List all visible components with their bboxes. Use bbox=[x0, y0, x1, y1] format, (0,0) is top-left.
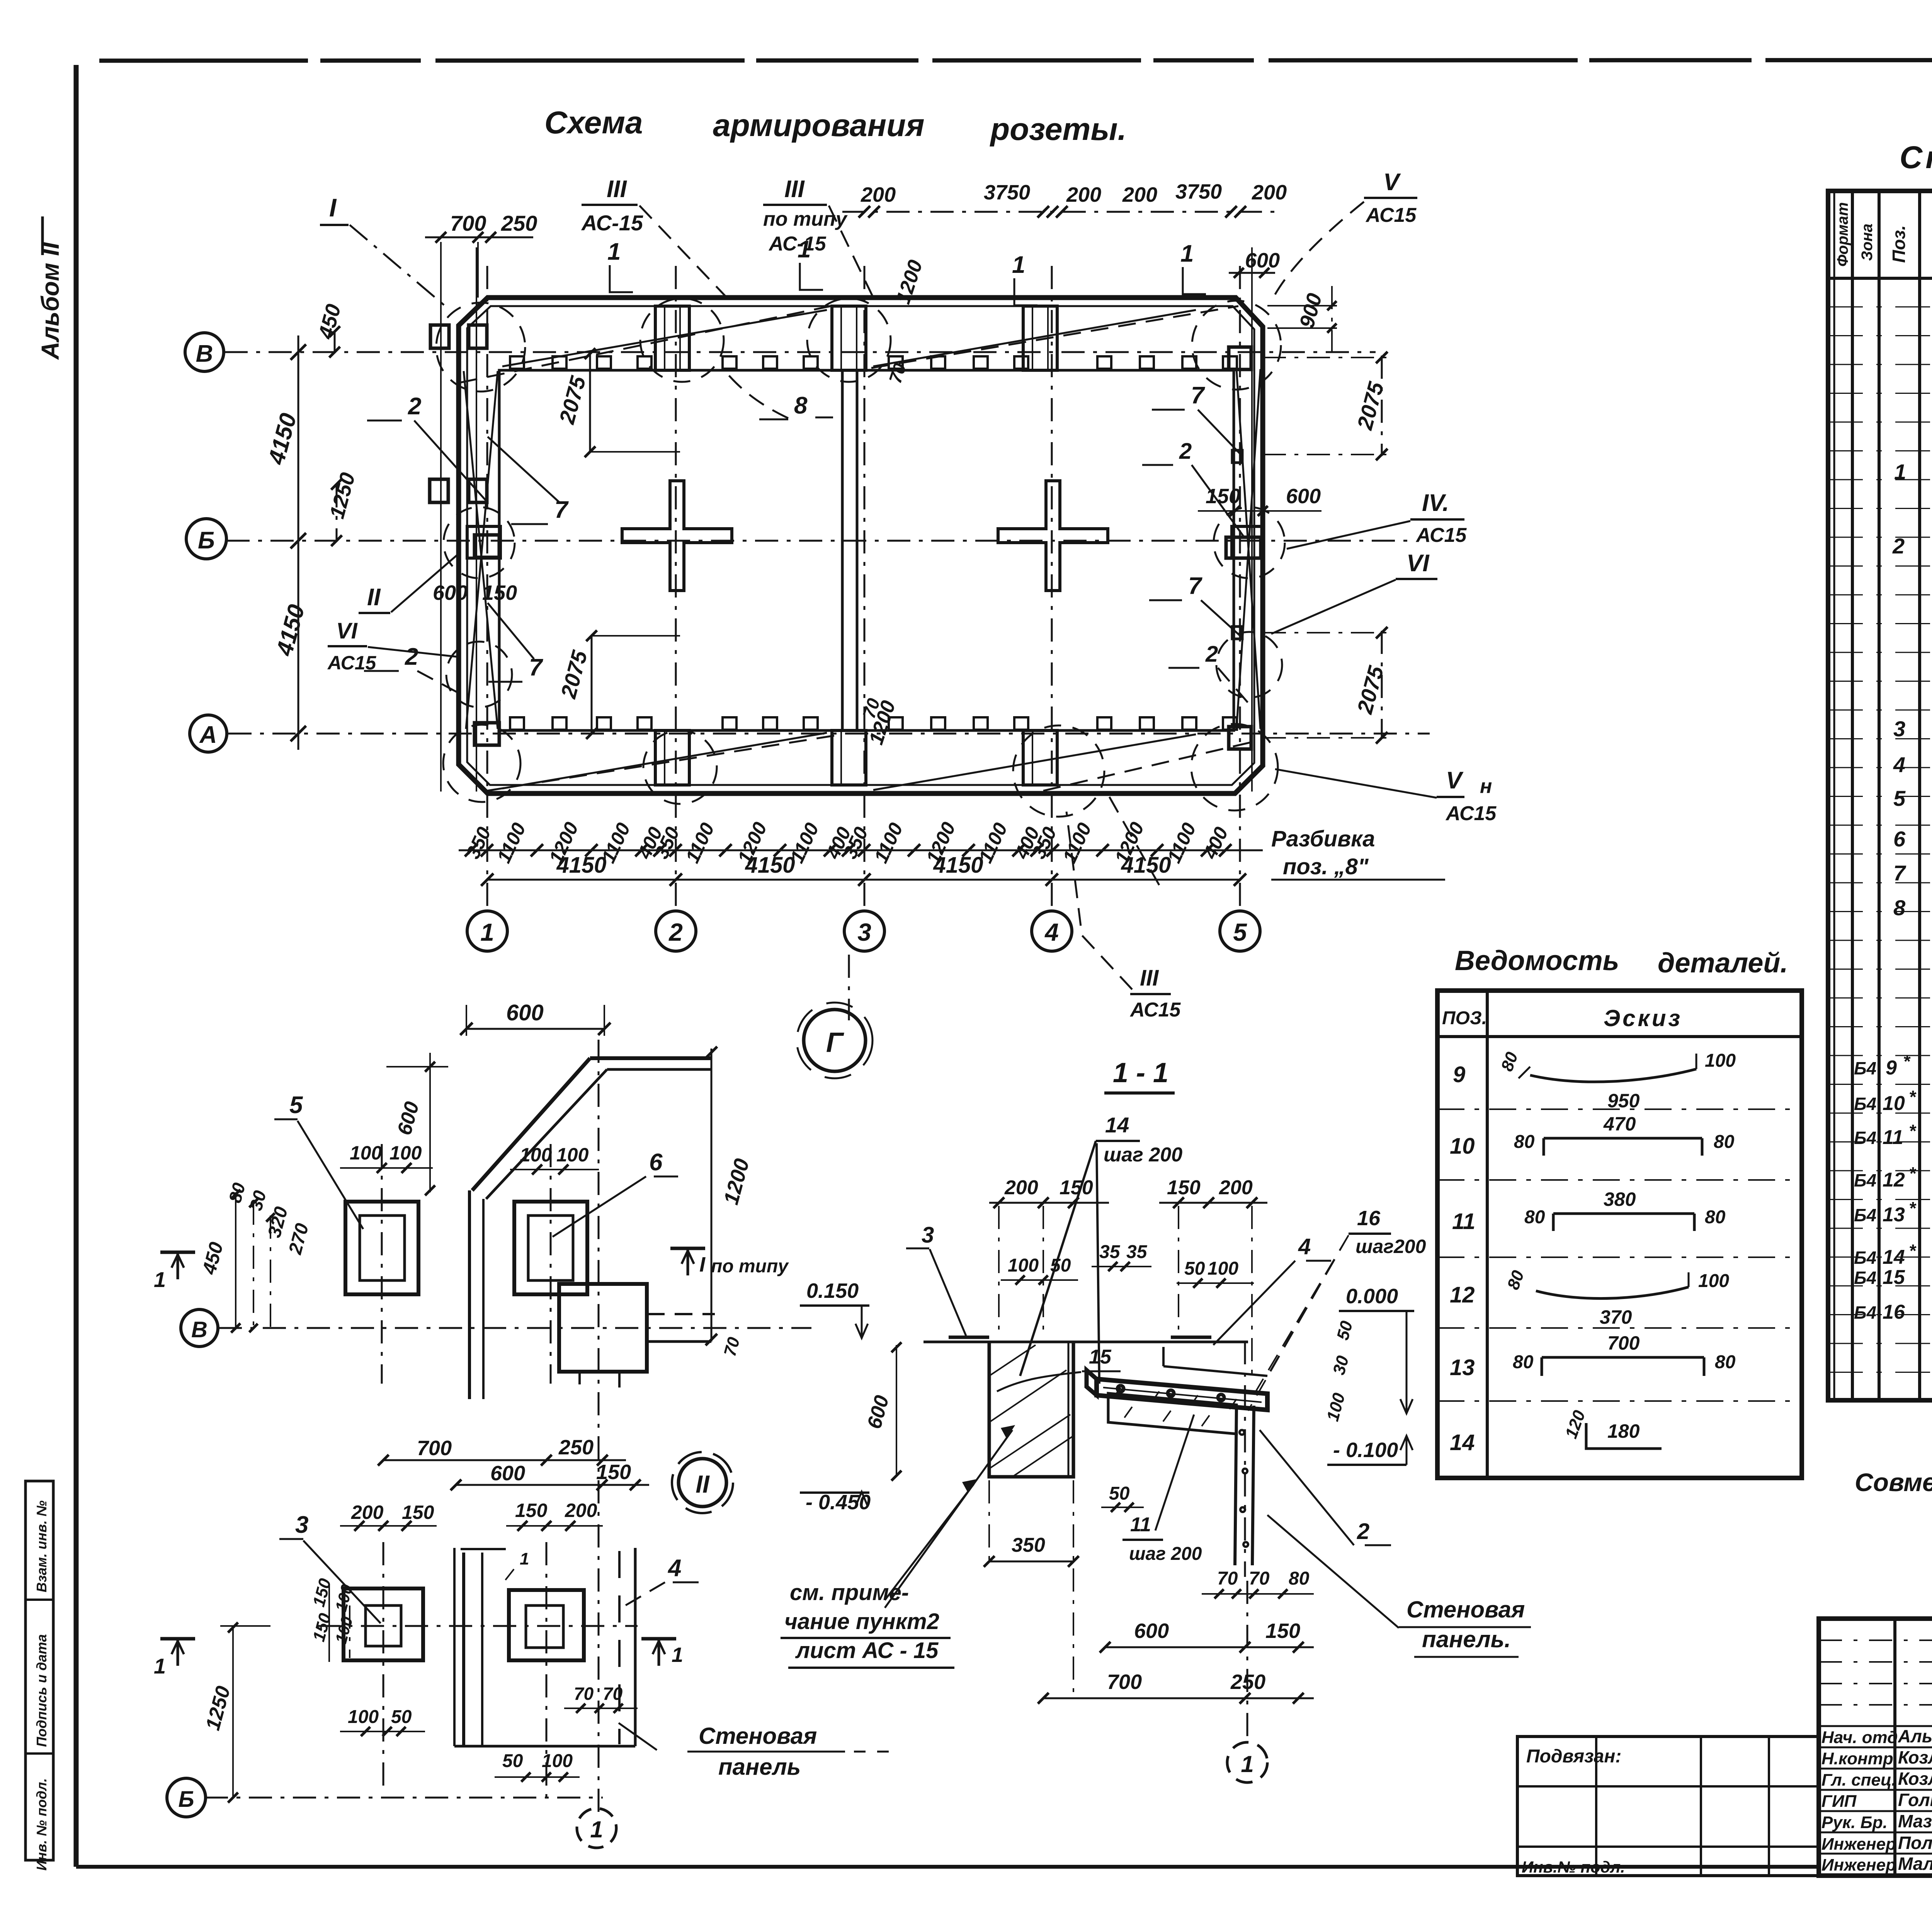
left vertical dimension line 4150/4150 bbox=[298, 335, 299, 750]
svg-text:0.000: 0.000 bbox=[1346, 1285, 1398, 1308]
svg-text:1: 1 bbox=[1012, 252, 1025, 278]
svg-text:50: 50 bbox=[502, 1751, 523, 1771]
detail dim line 1200 vertical bbox=[711, 1049, 713, 1342]
svg-text:12: 12 bbox=[1450, 1282, 1475, 1308]
svg-text:700: 700 bbox=[1607, 1332, 1640, 1354]
svg-text:Г: Г bbox=[826, 1027, 844, 1058]
svg-text:3: 3 bbox=[922, 1222, 934, 1248]
svg-text:Гольдина: Гольдина bbox=[1898, 1790, 1932, 1810]
svg-text:200: 200 bbox=[861, 183, 896, 206]
sketch row 9: bent bar bbox=[1530, 1069, 1696, 1082]
title block left rows bbox=[1819, 1725, 1932, 1727]
svg-text:950: 950 bbox=[1607, 1090, 1640, 1112]
svg-text:80: 80 bbox=[1705, 1207, 1726, 1227]
svg-text:Спецификация: Спецификация bbox=[1900, 140, 1932, 175]
svg-text:150: 150 bbox=[1060, 1176, 1093, 1199]
svg-text:Ведомость: Ведомость bbox=[1455, 945, 1619, 976]
svg-text:15: 15 bbox=[1089, 1346, 1112, 1368]
svg-text:600: 600 bbox=[506, 1000, 544, 1025]
svg-text:6: 6 bbox=[1893, 827, 1906, 851]
svg-text:4: 4 bbox=[1298, 1234, 1311, 1259]
spec table outer bbox=[1828, 191, 1932, 1400]
svg-text:35: 35 bbox=[1099, 1242, 1121, 1262]
detail II double circle bbox=[679, 1459, 726, 1507]
svg-text:150: 150 bbox=[482, 581, 517, 604]
svg-text:Подпись и дата: Подпись и дата bbox=[34, 1634, 49, 1747]
svg-text:14: 14 bbox=[1105, 1113, 1129, 1137]
svg-text:4150: 4150 bbox=[933, 853, 983, 878]
svg-text:600: 600 bbox=[490, 1462, 525, 1485]
svg-text:11: 11 bbox=[1452, 1209, 1475, 1234]
svg-text:7: 7 bbox=[1188, 573, 1202, 599]
svg-text:380: 380 bbox=[1604, 1188, 1636, 1210]
svg-text:лист АС - 15: лист АС - 15 bbox=[795, 1638, 939, 1663]
svg-text:7: 7 bbox=[1191, 382, 1205, 409]
svg-text:V: V bbox=[1446, 767, 1464, 794]
grid bubbles bottom 1-5 bbox=[467, 911, 507, 951]
svg-text:по типу: по типу bbox=[711, 1256, 789, 1277]
svg-text:13: 13 bbox=[1450, 1355, 1475, 1380]
svg-text:4150: 4150 bbox=[745, 853, 795, 878]
svg-text:14: 14 bbox=[1450, 1430, 1475, 1455]
svg-text:600: 600 bbox=[1245, 249, 1280, 272]
detail row В dash-dot bbox=[219, 1327, 811, 1329]
svg-text:150: 150 bbox=[1206, 485, 1240, 508]
svg-text:3750: 3750 bbox=[1175, 180, 1222, 203]
svg-text:Зона: Зона bbox=[1859, 223, 1876, 261]
svg-text:200: 200 bbox=[1066, 183, 1101, 206]
svg-text:Б: Б bbox=[178, 1787, 194, 1812]
svg-text:Б4: Б4 bbox=[1854, 1170, 1876, 1190]
svg-text:1: 1 bbox=[154, 1267, 166, 1292]
svg-text:Инженер: Инженер bbox=[1821, 1835, 1896, 1854]
svg-text:70: 70 bbox=[1249, 1568, 1270, 1589]
left wall mid pier row Б bbox=[467, 526, 500, 558]
svg-text:70: 70 bbox=[1217, 1568, 1238, 1589]
section rebar dots in pan bbox=[1117, 1386, 1224, 1401]
svg-text:10: 10 bbox=[1883, 1092, 1905, 1115]
svg-text:4150: 4150 bbox=[1121, 853, 1171, 878]
detail central vertical double lines (wall axis) upper bbox=[468, 1190, 471, 1399]
svg-text:35: 35 bbox=[1126, 1242, 1148, 1262]
svg-text:армирования: армирования bbox=[713, 108, 925, 143]
section ground line bbox=[923, 1341, 1248, 1343]
svg-text:1: 1 bbox=[672, 1643, 683, 1667]
svg-text:шаг 200: шаг 200 bbox=[1129, 1544, 1202, 1564]
svg-text:А: А bbox=[199, 722, 217, 748]
svg-text:700: 700 bbox=[417, 1437, 452, 1460]
svg-text:700: 700 bbox=[1107, 1670, 1142, 1694]
svg-text:1: 1 bbox=[607, 238, 621, 265]
svg-text:4: 4 bbox=[667, 1555, 681, 1582]
svg-text:100: 100 bbox=[1008, 1255, 1039, 1276]
spec table row lines (thin dashed) bbox=[1828, 306, 1932, 308]
svg-text:Стеновая: Стеновая bbox=[1406, 1597, 1525, 1622]
svg-text:80: 80 bbox=[1714, 1132, 1735, 1152]
svg-text:6: 6 bbox=[649, 1149, 663, 1176]
svg-text:2: 2 bbox=[1205, 642, 1218, 667]
page bottom border line bbox=[76, 1865, 1819, 1869]
svg-text:Подвязан:: Подвязан: bbox=[1526, 1746, 1621, 1767]
svg-text:1: 1 bbox=[1241, 1751, 1253, 1777]
section: circle Г bbox=[804, 1010, 866, 1071]
svg-text:н: н bbox=[1480, 775, 1492, 798]
svg-text:600: 600 bbox=[1286, 485, 1321, 508]
svg-text:5: 5 bbox=[289, 1092, 303, 1119]
svg-text:15: 15 bbox=[1883, 1266, 1905, 1289]
svg-text:50: 50 bbox=[1109, 1483, 1130, 1504]
svg-text:0.150: 0.150 bbox=[806, 1279, 859, 1302]
title block verticals left part bbox=[1893, 1619, 1896, 1876]
svg-text:1: 1 bbox=[1894, 460, 1906, 484]
plan outer wall outline with chamfered corners bbox=[459, 298, 1263, 793]
svg-text:80: 80 bbox=[1514, 1132, 1535, 1152]
svg-text:1: 1 bbox=[154, 1654, 166, 1678]
svg-text:IV.: IV. bbox=[1422, 490, 1449, 516]
lifting cross left (poz 8 axis node) bbox=[622, 481, 732, 591]
thin diagonals in top and bottom walls bbox=[502, 310, 827, 366]
left approval table bbox=[1517, 1737, 1819, 1876]
detail lower plate 3 bbox=[344, 1588, 423, 1660]
svg-text:50: 50 bbox=[391, 1707, 412, 1727]
detail mark 1 lower right bbox=[641, 1637, 676, 1641]
svg-text:АС15: АС15 bbox=[1445, 802, 1497, 825]
svg-text:3: 3 bbox=[295, 1512, 308, 1538]
svg-text:5: 5 bbox=[1893, 786, 1906, 810]
svg-text:шаг200: шаг200 bbox=[1355, 1236, 1426, 1257]
svg-text:Малахова: Малахова bbox=[1898, 1854, 1932, 1874]
svg-text:13: 13 bbox=[1883, 1204, 1905, 1226]
svg-text:ПОЗ.: ПОЗ. bbox=[1442, 1008, 1487, 1028]
mesh sheet thin vertical lines near left wall bbox=[440, 247, 442, 792]
left wall plate at row Б bbox=[474, 535, 499, 557]
svg-text:100: 100 bbox=[556, 1144, 589, 1166]
svg-text:Н.контр.: Н.контр. bbox=[1821, 1749, 1898, 1768]
svg-text:200: 200 bbox=[1252, 181, 1287, 204]
svg-text:100: 100 bbox=[1207, 1258, 1238, 1279]
svg-text:II: II bbox=[367, 584, 381, 611]
svg-text:470: 470 bbox=[1603, 1113, 1636, 1135]
title block outer bbox=[1819, 1619, 1932, 1876]
svg-text:панель: панель bbox=[718, 1754, 801, 1780]
svg-text:9: 9 bbox=[1886, 1057, 1897, 1079]
section right slab part above pan bbox=[1162, 1347, 1165, 1366]
svg-text:деталей.: деталей. bbox=[1658, 948, 1788, 979]
svg-text:АС15: АС15 bbox=[327, 652, 377, 674]
right wall mid pier row Б bbox=[1232, 526, 1263, 558]
svg-text:600: 600 bbox=[433, 581, 468, 604]
svg-text:Нач. отд: Нач. отд bbox=[1821, 1728, 1898, 1747]
svg-text:1 - 1: 1 - 1 bbox=[1113, 1057, 1168, 1088]
detail upper plate 6 bbox=[514, 1202, 587, 1294]
svg-text:2: 2 bbox=[1892, 534, 1905, 558]
svg-text:150: 150 bbox=[515, 1500, 548, 1521]
svg-text:4: 4 bbox=[1893, 752, 1905, 777]
svg-text:7: 7 bbox=[529, 654, 543, 681]
left small dims 450 and 1250 bbox=[334, 332, 336, 352]
detail big block square right of plate 6 bbox=[559, 1284, 647, 1372]
section bottom of slab under pan bbox=[1108, 1393, 1236, 1434]
svg-text:*: * bbox=[1909, 1198, 1917, 1218]
svg-text:В: В bbox=[191, 1317, 207, 1342]
svg-text:Б4: Б4 bbox=[1854, 1302, 1876, 1323]
svg-text:200: 200 bbox=[351, 1502, 384, 1523]
svg-text:70: 70 bbox=[603, 1684, 623, 1704]
svg-text:шаг 200: шаг 200 bbox=[1104, 1144, 1182, 1166]
svg-text:Схема: Схема bbox=[544, 105, 643, 140]
svg-text:Полякова: Полякова bbox=[1898, 1833, 1932, 1853]
svg-text:3: 3 bbox=[1893, 717, 1905, 741]
section pan hatch ticks bbox=[1114, 1388, 1236, 1409]
grid bubbles left В Б А bbox=[185, 333, 224, 371]
svg-text:150: 150 bbox=[1167, 1176, 1201, 1199]
detail upper plate 5 bbox=[345, 1202, 418, 1294]
left wall plate pair upper bbox=[430, 325, 449, 348]
svg-text:70: 70 bbox=[574, 1684, 594, 1704]
bottom dimension tick row bbox=[459, 850, 1263, 851]
sketch row 12: bent bar 370 bbox=[1536, 1287, 1689, 1299]
svg-text:9: 9 bbox=[1453, 1062, 1465, 1087]
page left border line bbox=[74, 65, 79, 1867]
svg-text:Формат: Формат bbox=[1834, 202, 1851, 267]
svg-text:50: 50 bbox=[1050, 1255, 1071, 1276]
callout dashed circles bbox=[436, 303, 525, 392]
svg-text:Б4: Б4 bbox=[1854, 1205, 1876, 1225]
svg-text:Б4: Б4 bbox=[1854, 1128, 1876, 1148]
svg-text:Козлобичев: Козлобичев bbox=[1898, 1769, 1932, 1789]
svg-text:370: 370 bbox=[1600, 1306, 1632, 1328]
svg-text:4150: 4150 bbox=[556, 853, 606, 878]
svg-text:Эскиз: Эскиз bbox=[1604, 1005, 1682, 1031]
svg-text:- 0.100: - 0.100 bbox=[1333, 1439, 1398, 1462]
svg-text:АС15: АС15 bbox=[1129, 999, 1181, 1021]
parts list row lines bbox=[1437, 1108, 1802, 1110]
section panel concrete dots bbox=[1240, 1430, 1248, 1547]
svg-text:100: 100 bbox=[520, 1144, 552, 1166]
section arrows from note bbox=[885, 1430, 1012, 1608]
svg-text:14: 14 bbox=[1883, 1246, 1905, 1268]
svg-text:I: I bbox=[699, 1253, 706, 1276]
svg-text:2: 2 bbox=[1179, 439, 1192, 464]
svg-text:VI: VI bbox=[1406, 550, 1430, 577]
top wall piers bbox=[655, 306, 689, 370]
section small plates on ground bbox=[949, 1336, 989, 1339]
svg-text:Поз.: Поз. bbox=[1889, 225, 1909, 263]
spec table column lines bbox=[1851, 191, 1854, 1400]
svg-text:Б4: Б4 bbox=[1854, 1058, 1876, 1078]
svg-text:2: 2 bbox=[408, 393, 421, 420]
svg-text:100: 100 bbox=[542, 1751, 573, 1771]
svg-text:V: V bbox=[1383, 169, 1401, 196]
detail corner top horizontal double lines bbox=[590, 1056, 711, 1060]
section bubble 1 bbox=[1227, 1742, 1267, 1783]
svg-text:8: 8 bbox=[1893, 896, 1906, 920]
sketch row 13: U bar 700 bbox=[1542, 1357, 1704, 1376]
svg-text:16: 16 bbox=[1883, 1301, 1905, 1323]
svg-text:250: 250 bbox=[501, 211, 537, 235]
svg-text:Разбивка: Разбивка bbox=[1271, 826, 1375, 851]
detail section mark right: I по типу bbox=[670, 1247, 705, 1250]
svg-text:1: 1 bbox=[590, 1817, 603, 1842]
svg-text:11: 11 bbox=[1130, 1514, 1151, 1536]
svg-text:I: I bbox=[329, 193, 337, 222]
svg-text:Стеновая: Стеновая bbox=[699, 1723, 817, 1749]
svg-text:чание пункт2: чание пункт2 bbox=[784, 1609, 939, 1634]
bottom wall piers bbox=[655, 730, 689, 785]
svg-text:11: 11 bbox=[1883, 1126, 1903, 1149]
svg-text:АС-15: АС-15 bbox=[768, 233, 827, 255]
sketch row 14: L bar 120x180 bbox=[1586, 1423, 1662, 1449]
detail bubbles bbox=[181, 1309, 218, 1347]
steep diagonals in left and right walls bbox=[464, 371, 498, 729]
svg-text:80: 80 bbox=[1524, 1207, 1545, 1227]
svg-text:16: 16 bbox=[1357, 1207, 1381, 1230]
svg-text:Инв. № подл.: Инв. № подл. bbox=[34, 1778, 49, 1871]
svg-text:180: 180 bbox=[1607, 1420, 1640, 1442]
svg-text:7: 7 bbox=[1893, 861, 1906, 885]
svg-text:Б: Б bbox=[198, 527, 215, 554]
svg-text:10: 10 bbox=[1450, 1134, 1475, 1159]
section wall block bbox=[989, 1342, 1073, 1477]
sketch row 10: U bar 470 bbox=[1544, 1138, 1702, 1156]
svg-text:*: * bbox=[1909, 1163, 1917, 1183]
svg-text:200: 200 bbox=[1122, 183, 1157, 206]
svg-text:Взам. инв. №: Взам. инв. № bbox=[34, 1500, 49, 1592]
svg-text:поз. „8": поз. „8" bbox=[1283, 854, 1369, 879]
detail central vertical double lines lower + wall panel strip bbox=[453, 1548, 456, 1746]
svg-text:*: * bbox=[1909, 1121, 1917, 1141]
left wall plate pair lower bbox=[430, 479, 448, 502]
axis 3 continuation below plan bbox=[848, 955, 850, 1020]
svg-text:ГИП: ГИП bbox=[1821, 1792, 1857, 1811]
svg-text:100: 100 bbox=[389, 1142, 422, 1164]
svg-text:5: 5 bbox=[1233, 918, 1247, 946]
page top border dash-dot line bbox=[99, 60, 1932, 61]
svg-text:50: 50 bbox=[1184, 1258, 1205, 1279]
svg-text:1: 1 bbox=[480, 918, 494, 946]
svg-text:*: * bbox=[1903, 1051, 1911, 1071]
svg-text:600: 600 bbox=[1134, 1619, 1169, 1643]
left edge small frame boxes with rotated captions bbox=[26, 1481, 53, 1860]
svg-text:Инженер: Инженер bbox=[1821, 1856, 1896, 1874]
svg-text:Б4: Б4 bbox=[1854, 1268, 1876, 1288]
svg-text:200: 200 bbox=[1219, 1176, 1253, 1199]
svg-text:III: III bbox=[1140, 965, 1159, 991]
centre partition wall full height bbox=[841, 370, 844, 730]
svg-text:200: 200 bbox=[565, 1500, 597, 1521]
svg-text:80: 80 bbox=[1513, 1352, 1534, 1372]
svg-text:12: 12 bbox=[1883, 1169, 1905, 1191]
parts list outer box bbox=[1437, 991, 1802, 1478]
svg-text:Совместно: Совместно bbox=[1855, 1468, 1932, 1496]
svg-text:4: 4 bbox=[1044, 918, 1059, 946]
svg-text:1: 1 bbox=[1180, 240, 1194, 267]
spec table header line bbox=[1828, 277, 1932, 280]
svg-text:розеты.: розеты. bbox=[990, 112, 1126, 147]
svg-text:В: В bbox=[196, 340, 213, 367]
svg-text:Инв.№ подл.: Инв.№ подл. bbox=[1522, 1858, 1625, 1876]
svg-text:Б4: Б4 bbox=[1854, 1094, 1876, 1114]
svg-text:150: 150 bbox=[1265, 1619, 1300, 1643]
svg-text:Гл. спец.: Гл. спец. bbox=[1821, 1771, 1896, 1789]
svg-text:Рук. Бр.: Рук. Бр. bbox=[1821, 1813, 1888, 1832]
svg-text:АС15: АС15 bbox=[1365, 204, 1417, 226]
svg-text:VI: VI bbox=[336, 618, 358, 644]
detail vertical dash-dot axes of plates bbox=[381, 1144, 383, 1384]
svg-text:Козлобичев: Козлобичев bbox=[1898, 1747, 1932, 1767]
detail corner chamfer double diagonal bbox=[472, 1058, 590, 1190]
lifting cross right bbox=[998, 481, 1108, 591]
svg-text:700: 700 bbox=[450, 211, 486, 235]
bottom dimension row 4150 x4 bbox=[487, 879, 1240, 881]
svg-text:1: 1 bbox=[520, 1549, 529, 1568]
svg-text:3: 3 bbox=[857, 918, 871, 946]
interior dims 2075 left bays bbox=[589, 354, 591, 452]
svg-text:100: 100 bbox=[1705, 1050, 1736, 1071]
svg-text:Альбом II: Альбом II bbox=[36, 242, 64, 360]
detail section marks 1 bbox=[160, 1251, 195, 1254]
svg-text:II: II bbox=[696, 1470, 710, 1498]
svg-text:*: * bbox=[1909, 1241, 1917, 1261]
svg-text:200: 200 bbox=[1004, 1176, 1038, 1199]
section wall panel right bbox=[1235, 1406, 1236, 1565]
svg-text:250: 250 bbox=[558, 1436, 594, 1459]
section sloped pan element bbox=[1097, 1379, 1267, 1410]
grid vertical dash-dot axes 1..5 bbox=[486, 266, 488, 909]
svg-text:100: 100 bbox=[348, 1707, 379, 1727]
svg-text:2: 2 bbox=[405, 644, 418, 670]
left wall plate at row А bbox=[474, 723, 499, 745]
top main dimension line 200 3750 200 200 3750 200 bbox=[842, 211, 1281, 213]
svg-text:панель.: панель. bbox=[1422, 1626, 1511, 1652]
sketch row 11: U bar 380 bbox=[1553, 1214, 1694, 1231]
plan inner offset outline bbox=[467, 306, 1254, 785]
detail lower plate 4 bbox=[509, 1590, 584, 1660]
svg-text:АС15: АС15 bbox=[1415, 524, 1467, 546]
svg-text:*: * bbox=[1909, 1087, 1917, 1107]
right wall plates bbox=[1229, 347, 1251, 369]
section hatch of wall bbox=[989, 1345, 1073, 1477]
svg-text:2: 2 bbox=[1357, 1519, 1369, 1544]
section extension verticals bbox=[998, 1206, 1000, 1337]
grid horizontal dash-dot axes В Б А bbox=[224, 351, 1376, 353]
plan interior opening rect bbox=[499, 370, 1234, 730]
svg-text:2: 2 bbox=[668, 918, 683, 946]
svg-text:3750: 3750 bbox=[984, 181, 1030, 204]
svg-text:Б4: Б4 bbox=[1854, 1248, 1876, 1268]
svg-text:см. приме-: см. приме- bbox=[790, 1580, 909, 1605]
svg-text:III: III bbox=[784, 176, 805, 203]
leader from поз8 to plan bbox=[1109, 796, 1159, 885]
svg-text:8: 8 bbox=[794, 392, 808, 419]
svg-text:АС-15: АС-15 bbox=[581, 211, 643, 235]
svg-text:100: 100 bbox=[350, 1142, 382, 1164]
svg-text:350: 350 bbox=[1012, 1534, 1045, 1556]
detail axis of bubble 1 vertical dash-dot bbox=[598, 1040, 600, 1817]
detail row Б dash-dot bbox=[205, 1797, 603, 1799]
svg-text:III: III bbox=[607, 176, 627, 203]
embedded plates: bottom row of small squares bbox=[510, 356, 1237, 730]
svg-text:80: 80 bbox=[1715, 1352, 1736, 1372]
svg-text:100: 100 bbox=[1698, 1271, 1729, 1291]
svg-text:150: 150 bbox=[402, 1502, 434, 1523]
right side dims 2075 2075 bbox=[1381, 356, 1383, 456]
svg-text:80: 80 bbox=[1289, 1568, 1310, 1589]
svg-text:150: 150 bbox=[596, 1461, 631, 1484]
svg-text:Мазо: Мазо bbox=[1898, 1811, 1932, 1831]
svg-text:Альтшулер: Альтшулер bbox=[1898, 1726, 1932, 1746]
